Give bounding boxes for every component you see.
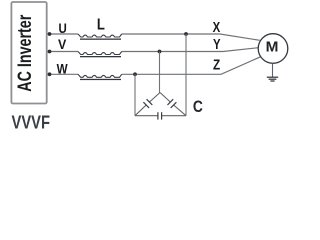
svg-text:V: V: [58, 36, 67, 52]
inductor L (W phase): [78, 74, 122, 80]
motor M1: [258, 34, 288, 64]
node W terminal dot: [48, 72, 52, 76]
svg-text:W: W: [57, 60, 69, 76]
capacitor C3 (bottom of delta): [135, 112, 186, 119]
node V terminal dot: [48, 50, 52, 54]
svg-text:Z: Z: [213, 56, 220, 73]
wire from W down to capacitor bottom-left: [134, 74, 136, 115]
svg-text:L: L: [97, 17, 105, 34]
svg-text:AC Inverter: AC Inverter: [15, 14, 36, 91]
node junction dot U/x186: [184, 32, 188, 36]
wire U: [49, 34, 259, 40]
label VVVF: [12, 112, 51, 132]
wire from V down to capacitor apex: [159, 52, 161, 93]
ground: [267, 63, 278, 81]
svg-text:C: C: [193, 97, 203, 116]
inductor L (V phase): [78, 52, 122, 58]
svg-text:Y: Y: [213, 36, 221, 53]
node U terminal dot: [48, 32, 52, 36]
capacitor C1 (left diagonal of delta): [135, 93, 160, 116]
AC Inverter box: [11, 2, 46, 104]
capacitor C2 (right diagonal of delta): [160, 93, 186, 116]
svg-text:X: X: [213, 19, 221, 36]
svg-text:VVVF: VVVF: [12, 112, 51, 132]
node junction dot V/x159.5: [158, 50, 162, 54]
svg-text:U: U: [59, 20, 67, 36]
wire V: [49, 48, 258, 52]
wire W: [49, 57, 261, 75]
svg-text:M: M: [266, 38, 279, 55]
wire from U down to capacitor bottom-right: [185, 34, 187, 116]
node junction dot W/x135: [133, 72, 137, 76]
inductor L (U phase): [78, 34, 122, 40]
